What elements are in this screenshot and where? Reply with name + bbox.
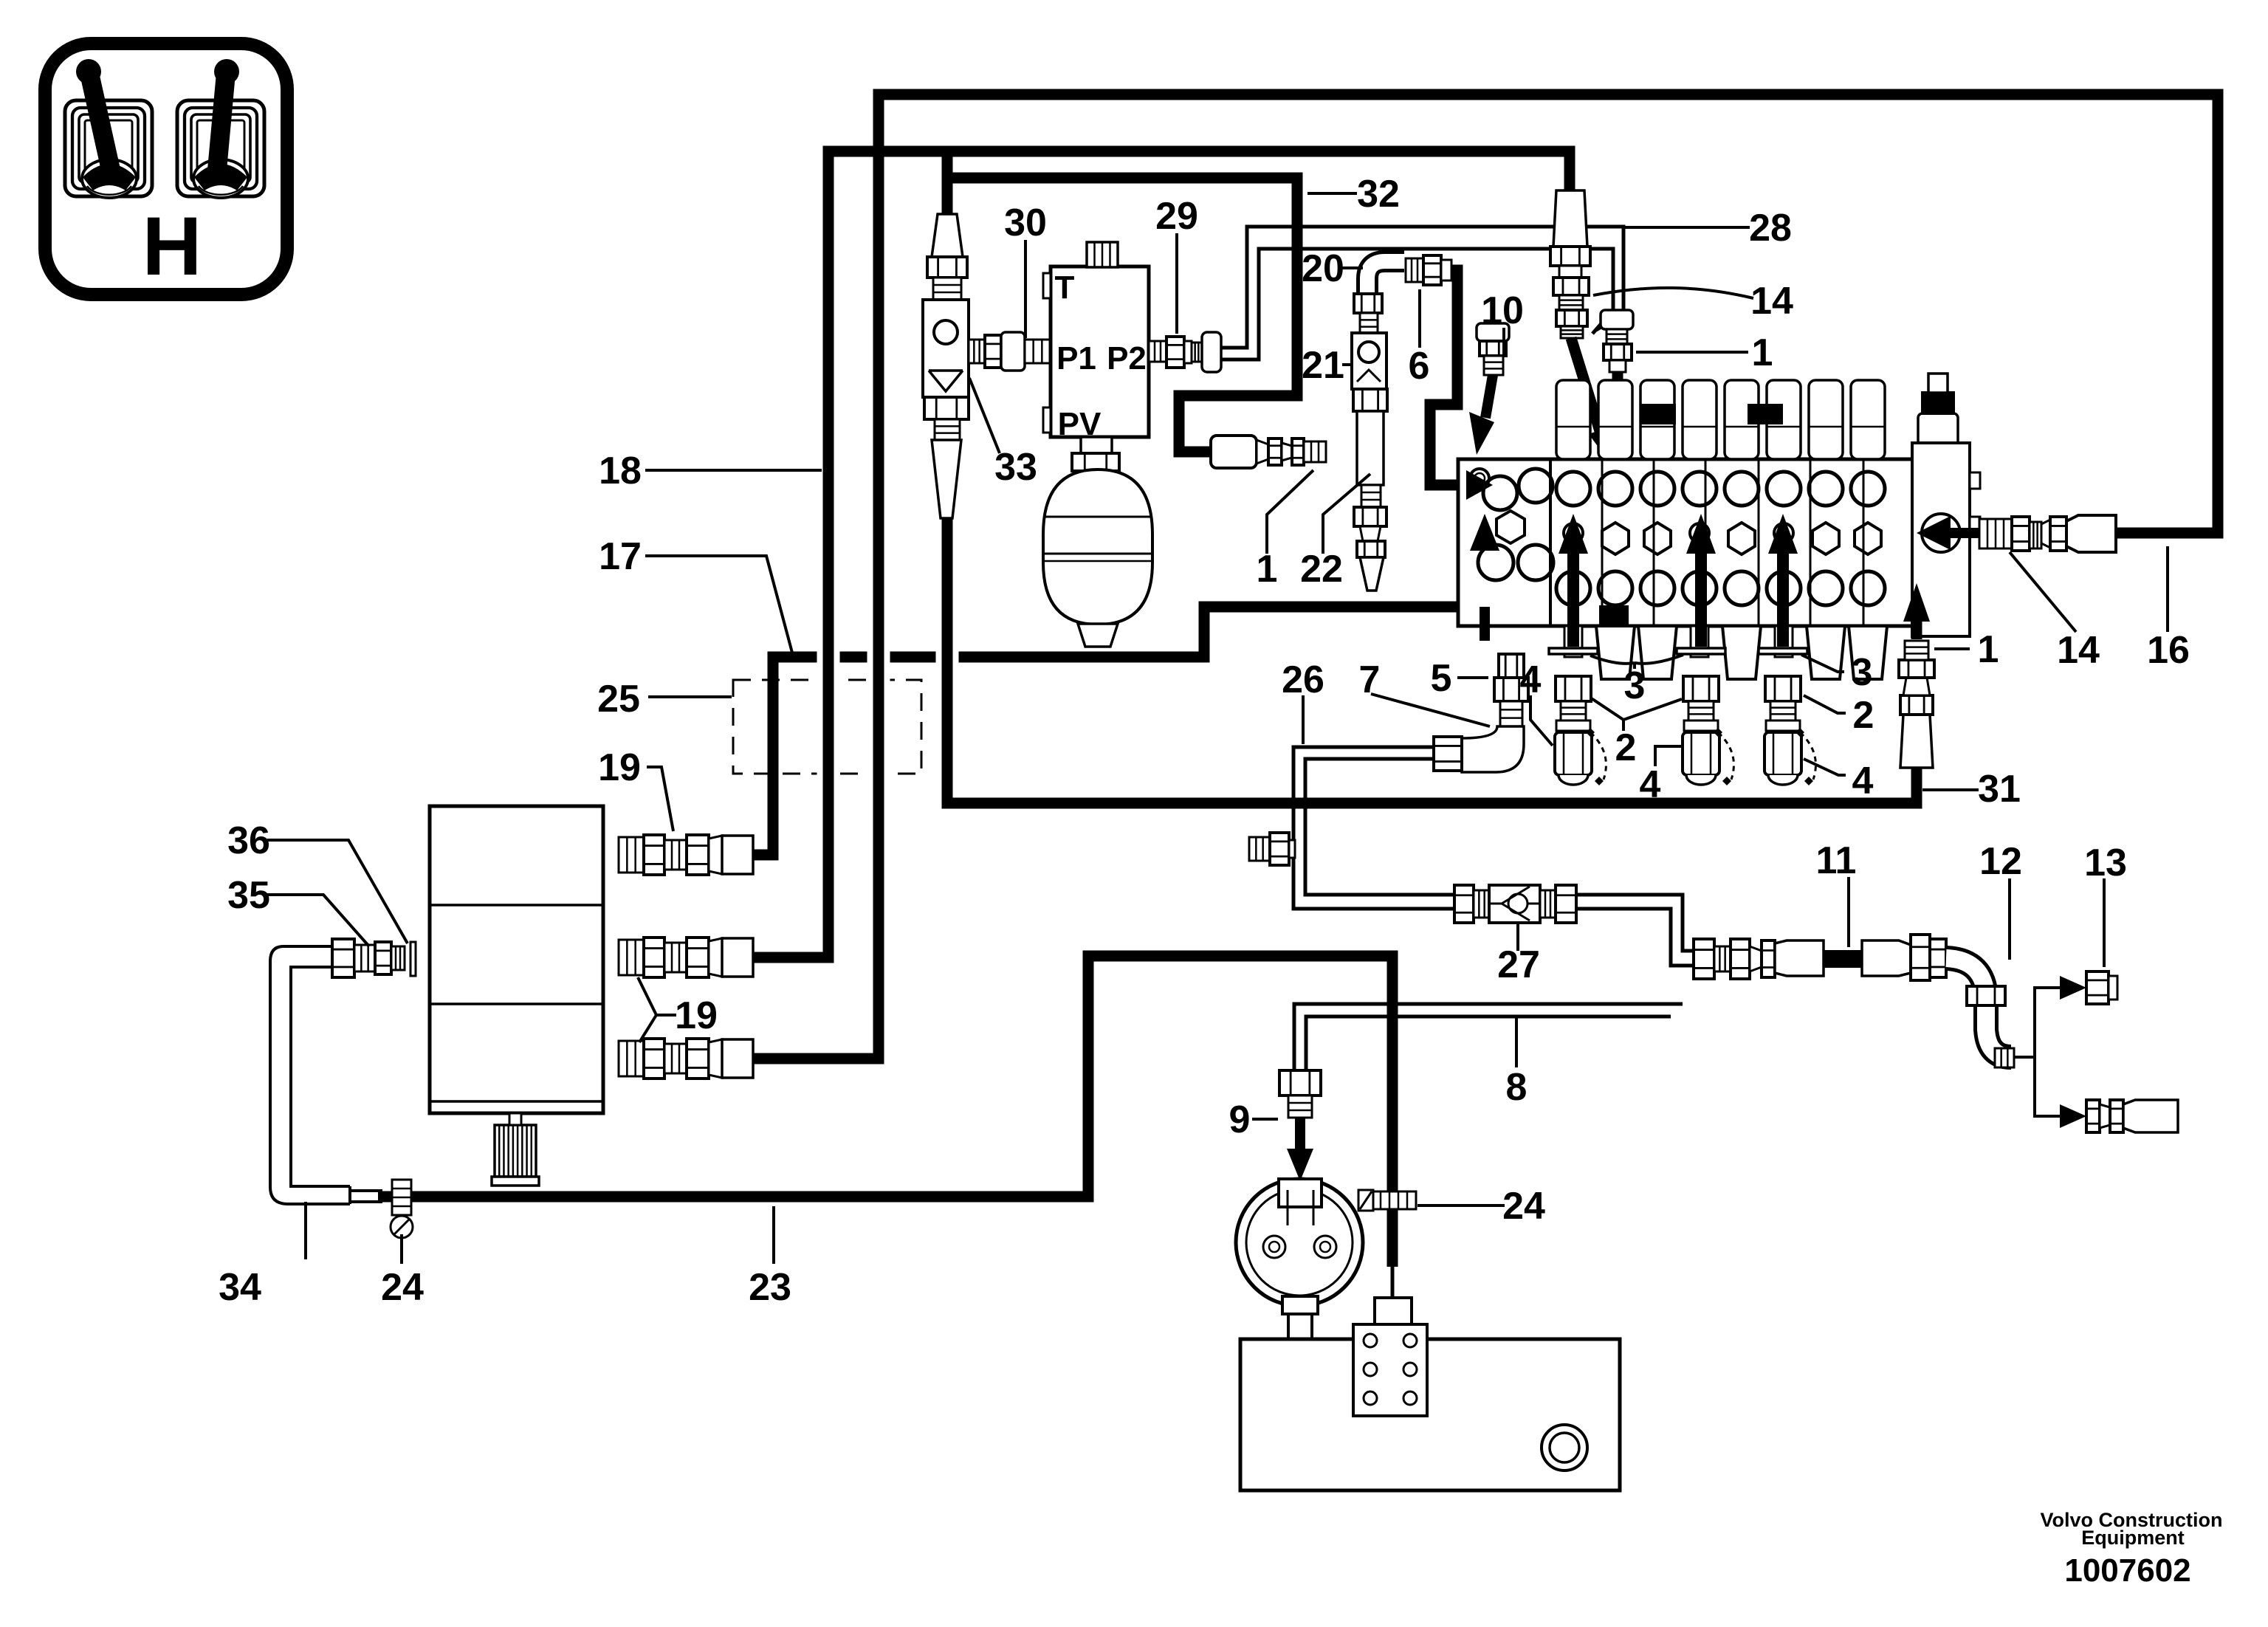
svg-text:1: 1	[1752, 331, 1773, 374]
svg-text:9: 9	[1229, 1098, 1251, 1141]
svg-text:10: 10	[1481, 289, 1524, 332]
svg-text:29: 29	[1155, 195, 1198, 238]
tank port	[1542, 1425, 1587, 1471]
svg-text:P2: P2	[1107, 340, 1147, 376]
wire thin pair from P2 fitting 29 to hose 28 stack	[1217, 227, 1623, 348]
item 36 sealing washer	[410, 942, 416, 976]
tank reservoir	[1240, 1339, 1620, 1490]
arrow head hose 6 route into left port	[1466, 470, 1493, 500]
hose 31 check valve 33 down and right to fitting 1 stack	[947, 509, 1917, 803]
arrows couplers into valve	[1567, 552, 1579, 647]
hose 11 black segment	[1824, 950, 1862, 968]
svg-text:P1: P1	[1056, 340, 1096, 376]
svg-text:6: 6	[1409, 345, 1430, 388]
arrow 9 into gauge	[1295, 1118, 1305, 1152]
tank adapter plug	[1375, 1298, 1412, 1326]
svg-text:24: 24	[1502, 1185, 1545, 1228]
svg-text:19: 19	[598, 746, 641, 789]
svg-text:13: 13	[2084, 842, 2127, 884]
fitting 5 stack and elbow 7	[1499, 654, 1524, 678]
svg-text:1: 1	[1978, 628, 1999, 671]
check valve 33 bottom fittings	[924, 397, 969, 419]
svg-text:30: 30	[1004, 202, 1047, 244]
fitting 29	[1149, 341, 1166, 362]
check valve 21	[1352, 333, 1386, 389]
svg-text:Equipment: Equipment	[2081, 1527, 2185, 1549]
svg-text:3: 3	[1852, 651, 1873, 694]
pressure gauge	[1236, 1179, 1363, 1306]
check valve 27	[1454, 885, 1474, 923]
hex nut check 33 top	[927, 257, 967, 278]
svg-text:14: 14	[1750, 280, 1793, 323]
wire from elbow 12 to items 13	[2014, 988, 2060, 1116]
arrow from 14 into valve port	[1571, 338, 1604, 443]
fitting stack 1 on hose 31	[1900, 715, 1933, 768]
hose 32 check valve 33 to fitting 1 staircase	[947, 151, 1297, 452]
fitting stack 22 below check 21	[1353, 389, 1387, 411]
fitting 6 male adapter	[1406, 258, 1423, 282]
svg-text:32: 32	[1357, 173, 1400, 216]
svg-text:31: 31	[1978, 768, 2021, 811]
svg-text:11: 11	[1816, 839, 1857, 882]
fitting chain to hose 16	[1946, 528, 1982, 538]
fitting chain 11	[1694, 939, 1714, 979]
svg-text:18: 18	[599, 450, 642, 492]
valve ports and hexes	[1470, 469, 1885, 605]
arrow stack 1 into valve bottom	[1911, 619, 1922, 639]
fitting 14 stack	[1550, 247, 1590, 266]
svg-text:17: 17	[599, 535, 642, 578]
svg-text:14: 14	[2057, 629, 2100, 672]
fitting 35 36 pump suction	[332, 939, 354, 977]
accumulator sphere 33 assembly	[1043, 437, 1152, 647]
hose end of hose 28	[1553, 190, 1587, 247]
quick couplers items 2 3 4	[1549, 648, 1815, 785]
arrow head hose 17 into valve port	[1470, 514, 1499, 551]
hose 17 pump top to valve port	[747, 551, 1485, 855]
arrow to hose end 13	[2060, 1104, 2086, 1128]
svg-text:8: 8	[1506, 1066, 1528, 1109]
svg-text:T: T	[1055, 269, 1075, 306]
hose end of hose 16	[2066, 515, 2116, 552]
svg-text:34: 34	[219, 1266, 261, 1309]
pressure reducing valve block	[1043, 242, 1149, 442]
valve bottom caps	[1564, 605, 1887, 679]
svg-text:21: 21	[1302, 344, 1344, 387]
tank mounting plate	[1353, 1324, 1427, 1416]
hose end below check valve 33	[932, 440, 961, 518]
check valve 33 body	[923, 300, 969, 397]
dashed box item 25	[733, 680, 921, 774]
svg-text:16: 16	[2147, 629, 2190, 672]
fitting 9	[1279, 1070, 1321, 1095]
svg-text:12: 12	[1979, 840, 2022, 883]
valve top caps	[1556, 380, 1885, 459]
joystick control icon box H	[45, 44, 287, 295]
pump fittings 19	[619, 835, 753, 875]
svg-text:36: 36	[227, 819, 270, 862]
arrow hose 16 chain into outlet port	[1917, 516, 1951, 550]
hose end fitting below 13	[2086, 1100, 2100, 1132]
svg-text:23: 23	[749, 1266, 791, 1309]
svg-text:H: H	[142, 200, 202, 292]
svg-text:33: 33	[994, 446, 1037, 489]
suction hose 34 white	[270, 946, 350, 1204]
wire thin pair check valve 27 to fitting chain 11	[1576, 895, 1694, 951]
svg-text:4: 4	[1852, 760, 1874, 802]
svg-text:2: 2	[1853, 694, 1874, 737]
svg-text:3: 3	[1624, 664, 1646, 707]
svg-text:4: 4	[1640, 763, 1661, 806]
hose end right of 11	[1862, 940, 1911, 976]
hydraulic pump	[430, 806, 603, 1113]
svg-text:4: 4	[1520, 658, 1542, 701]
svg-text:19: 19	[675, 994, 718, 1037]
nut below elbow 20	[1354, 294, 1382, 313]
hose 18 pump middle to hose 28 stack via top loop	[747, 151, 1570, 957]
arrow from fitting 10 into valve	[1485, 375, 1493, 418]
svg-text:5: 5	[1431, 657, 1452, 700]
wire thin pair hose 8 from fitting 9 to chain 11 junction	[1294, 1004, 1683, 1077]
clamp 24 right	[1372, 1191, 1416, 1209]
fitting 1 hose end horizontal	[1211, 436, 1257, 468]
elbow 12	[1946, 958, 2011, 1057]
hose end above check valve 33	[932, 214, 963, 257]
fitting 26 male stub	[1249, 837, 1270, 861]
hose 31 white casing	[936, 631, 959, 683]
svg-text:35: 35	[227, 874, 270, 917]
fitting 10 plug	[1477, 323, 1509, 341]
svg-text:22: 22	[1300, 548, 1343, 591]
svg-text:2: 2	[1615, 726, 1637, 769]
pump spline shaft	[495, 1125, 536, 1177]
svg-text:1: 1	[1257, 548, 1278, 591]
hose 18 white casing	[817, 632, 840, 791]
svg-text:20: 20	[1302, 247, 1344, 290]
fitting 30 chain to P1	[969, 340, 985, 363]
hose 16 pump bottom via outer loop to valve outlet chain	[747, 94, 2218, 1059]
elbow fitting 20	[1367, 261, 1404, 295]
svg-text:25: 25	[597, 678, 640, 720]
hose 23 from pump suction line to tank filter	[378, 956, 1392, 1267]
wire thin stub tank adapter	[1391, 1266, 1395, 1299]
valve relief cap black	[1918, 413, 1958, 458]
svg-text:28: 28	[1749, 207, 1792, 250]
hose from fitting 6 to valve left port	[1430, 270, 1466, 485]
valve outlet section	[1912, 443, 1970, 636]
main control valve block body	[1458, 459, 1955, 626]
fitting 1 top of valve	[1601, 310, 1633, 329]
clamp 24 left	[392, 1180, 411, 1215]
svg-text:26: 26	[1282, 658, 1324, 701]
arrow to nut 13	[2060, 976, 2086, 1000]
svg-text:1007602: 1007602	[2064, 1552, 2190, 1589]
wire thin pipe pair elbow7 to fitting26 tee to check valve 27	[1293, 747, 1456, 909]
arrow from fitting 1 into valve port	[1612, 372, 1623, 441]
svg-text:24: 24	[381, 1266, 424, 1309]
nut 13	[2086, 971, 2109, 1004]
